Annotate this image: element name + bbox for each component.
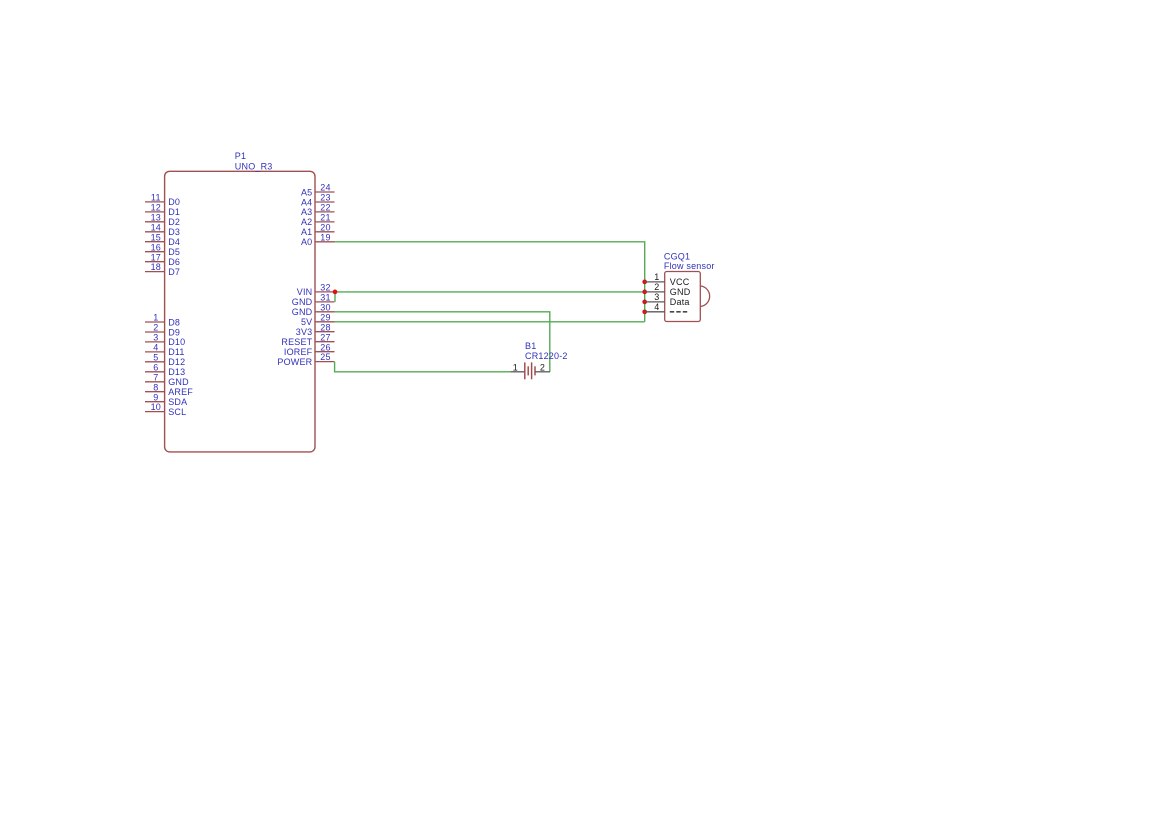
svg-text:D11: D11 — [168, 347, 184, 357]
svg-text:UNO_R3: UNO_R3 — [235, 161, 273, 171]
pin 15 D4 of P1 — [145, 232, 180, 247]
svg-text:GND: GND — [670, 287, 691, 297]
pin 9 SDA of P1 — [145, 392, 187, 407]
svg-text:D0: D0 — [168, 197, 180, 207]
wire net POWER: P1 pin25 to battery terminal 1 — [335, 362, 511, 372]
pin 29 5V of P1 — [301, 312, 335, 327]
svg-text:14: 14 — [151, 222, 161, 232]
svg-text:30: 30 — [320, 302, 330, 312]
pin 26 IOREF of P1 — [284, 342, 335, 357]
svg-text:A1: A1 — [301, 227, 312, 237]
svg-text:8: 8 — [153, 382, 158, 392]
svg-text:3: 3 — [654, 292, 659, 302]
svg-text:P1: P1 — [235, 151, 246, 161]
svg-text:7: 7 — [153, 372, 158, 382]
svg-text:D8: D8 — [168, 317, 180, 327]
svg-text:5: 5 — [153, 352, 158, 362]
svg-text:A5: A5 — [301, 187, 312, 197]
pin 32 VIN of P1 — [297, 283, 335, 298]
svg-text:D1: D1 — [168, 207, 180, 217]
junction dot at flow sensor pin 1 — [642, 280, 647, 285]
junction dot at flow sensor pin 2 — [642, 290, 647, 295]
svg-text:11: 11 — [151, 193, 161, 203]
pin 11 D0 of P1 — [145, 193, 180, 208]
svg-text:1: 1 — [654, 272, 659, 282]
pin 2 D9 of P1 — [145, 323, 180, 338]
junction dot at flow sensor pin 3 — [642, 300, 647, 305]
svg-text:12: 12 — [151, 203, 161, 213]
pin 31 GND of P1 — [292, 293, 335, 308]
junction dot at VIN pin32 — [333, 290, 338, 295]
pin 28 3V3 of P1 — [296, 322, 335, 337]
pin 27 RESET of P1 — [281, 332, 334, 347]
battery B1 terminal 1 lead — [510, 371, 524, 373]
svg-text:D2: D2 — [168, 217, 180, 227]
svg-text:D9: D9 — [168, 327, 180, 337]
battery B1 plate long 2 — [531, 362, 533, 379]
svg-text:SDA: SDA — [168, 397, 187, 407]
pin 13 D2 of P1 — [145, 212, 180, 227]
pin 10 SCL of P1 — [145, 402, 186, 417]
pin 4 D11 of P1 — [145, 343, 185, 358]
battery B1 plate short 1 — [527, 366, 529, 375]
svg-text:31: 31 — [320, 293, 330, 303]
svg-text:D4: D4 — [168, 237, 180, 247]
svg-text:1: 1 — [513, 362, 518, 372]
svg-text:26: 26 — [320, 342, 330, 352]
svg-text:4: 4 — [153, 343, 158, 353]
svg-text:29: 29 — [320, 312, 330, 322]
svg-text:D12: D12 — [168, 357, 185, 367]
svg-text:15: 15 — [151, 232, 161, 242]
svg-text:POWER: POWER — [277, 357, 312, 367]
pin 21 A2 of P1 — [301, 213, 335, 228]
svg-text:D10: D10 — [168, 337, 185, 347]
svg-text:GND: GND — [292, 307, 313, 317]
pin 14 D3 of P1 — [145, 222, 180, 237]
svg-text:3: 3 — [153, 333, 158, 343]
svg-text:A4: A4 — [301, 197, 312, 207]
connector P1 UNO_R3 body — [165, 171, 315, 452]
svg-text:A3: A3 — [301, 207, 312, 217]
svg-text:A2: A2 — [301, 217, 312, 227]
svg-text:25: 25 — [320, 352, 330, 362]
svg-text:6: 6 — [153, 362, 158, 372]
svg-text:22: 22 — [320, 203, 330, 213]
svg-text:SCL: SCL — [168, 407, 186, 417]
svg-text:3V3: 3V3 — [296, 327, 313, 337]
wire net VIN: P1 pin32 horizontal to flow sensor pin 2 — [334, 291, 645, 293]
svg-text:18: 18 — [151, 262, 161, 272]
svg-text:19: 19 — [320, 232, 330, 242]
pin 8 AREF of P1 — [145, 382, 193, 397]
svg-text:2: 2 — [153, 323, 158, 333]
pin 24 A5 of P1 — [301, 183, 335, 198]
flow sensor notch semicircle — [700, 286, 709, 307]
pin 18 D7 of P1 — [145, 262, 180, 277]
svg-text:24: 24 — [320, 183, 330, 193]
pin 2 GND of CGQ1 — [645, 282, 691, 297]
svg-text:VIN: VIN — [297, 287, 313, 297]
svg-text:RESET: RESET — [281, 337, 312, 347]
svg-text:21: 21 — [320, 213, 330, 223]
svg-text:9: 9 — [153, 392, 158, 402]
svg-text:28: 28 — [320, 322, 330, 332]
svg-text:B1: B1 — [525, 341, 536, 351]
svg-text:CR1220-2: CR1220-2 — [525, 351, 568, 361]
svg-text:2: 2 — [654, 282, 659, 292]
svg-text:D6: D6 — [168, 257, 180, 267]
pin 16 D5 of P1 — [145, 242, 180, 257]
battery B1 plate long 1 — [524, 362, 526, 379]
svg-text:1: 1 — [153, 313, 158, 323]
pin 19 A0 of P1 — [301, 232, 335, 247]
svg-text:D13: D13 — [168, 367, 185, 377]
battery B1 terminal 2 lead — [535, 371, 550, 373]
svg-text:23: 23 — [320, 193, 330, 203]
svg-text:VCC: VCC — [670, 277, 690, 287]
svg-text:13: 13 — [151, 212, 161, 222]
pin 25 POWER of P1 — [277, 352, 334, 367]
pin 12 D1 of P1 — [145, 203, 180, 218]
svg-text:A0: A0 — [301, 237, 312, 247]
svg-text:10: 10 — [151, 402, 161, 412]
flow sensor CGQ1 body — [665, 272, 701, 322]
pin 3 Data of CGQ1 — [645, 292, 690, 307]
svg-text:27: 27 — [320, 332, 330, 342]
svg-text:32: 32 — [320, 283, 330, 293]
pin 17 D6 of P1 — [145, 252, 180, 267]
svg-text:GND: GND — [292, 297, 313, 307]
pin 22 A3 of P1 — [301, 203, 335, 218]
pin 1 D8 of P1 — [145, 313, 180, 328]
pin 4 --- of CGQ1 — [645, 302, 688, 313]
svg-text:AREF: AREF — [168, 387, 193, 397]
battery B1 plate short 2 — [534, 366, 536, 375]
svg-text:GND: GND — [168, 377, 189, 387]
pin 20 A1 of P1 — [301, 222, 335, 237]
wire net GND: P1 pin30 to battery terminal 2 — [334, 312, 549, 372]
pin 23 A4 of P1 — [301, 193, 335, 208]
svg-text:17: 17 — [151, 252, 161, 262]
wire net A0: P1 pin19 to flow sensor, horizontal then vertical — [335, 242, 645, 322]
svg-text:5V: 5V — [301, 317, 312, 327]
pin 7 GND of P1 — [145, 372, 189, 387]
svg-text:D7: D7 — [168, 267, 180, 277]
pin 1 VCC of CGQ1 — [645, 272, 690, 287]
svg-text:D5: D5 — [168, 247, 180, 257]
junction dot at flow sensor pin 4 — [642, 309, 647, 314]
svg-text:20: 20 — [320, 222, 330, 232]
svg-text:D3: D3 — [168, 227, 180, 237]
pin 30 GND of P1 — [292, 302, 335, 317]
wire net 5V: P1 pin29 horizontal to vertical bus — [335, 321, 645, 323]
pin 5 D12 of P1 — [145, 352, 185, 367]
svg-text:IOREF: IOREF — [284, 347, 313, 357]
svg-text:Flow sensor: Flow sensor — [664, 261, 715, 271]
svg-text:2: 2 — [540, 362, 545, 372]
svg-text:Data: Data — [670, 297, 690, 307]
pin 3 D10 of P1 — [145, 333, 185, 348]
pin 6 D13 of P1 — [145, 362, 185, 377]
wire VIN to GND pin31 short vertical — [334, 292, 336, 302]
svg-text:16: 16 — [151, 242, 161, 252]
svg-text:4: 4 — [654, 302, 659, 312]
